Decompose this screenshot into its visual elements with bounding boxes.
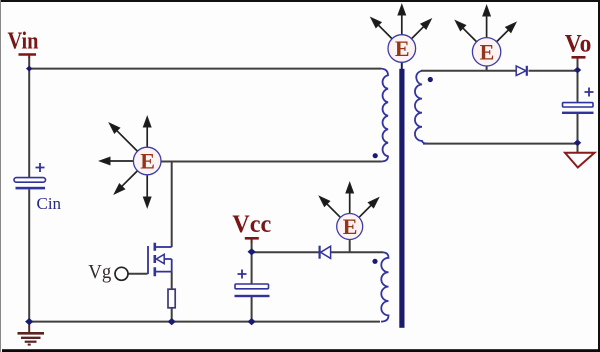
- svg-text:Cin: Cin: [37, 194, 62, 213]
- svg-text:Vo: Vo: [565, 29, 592, 58]
- svg-text:E: E: [395, 36, 410, 61]
- svg-text:E: E: [480, 39, 495, 64]
- svg-text:E: E: [140, 149, 155, 174]
- svg-text:E: E: [343, 214, 358, 239]
- svg-text:Vin: Vin: [8, 28, 39, 55]
- svg-text:Vcc: Vcc: [232, 211, 271, 238]
- svg-text:Vg: Vg: [88, 261, 111, 283]
